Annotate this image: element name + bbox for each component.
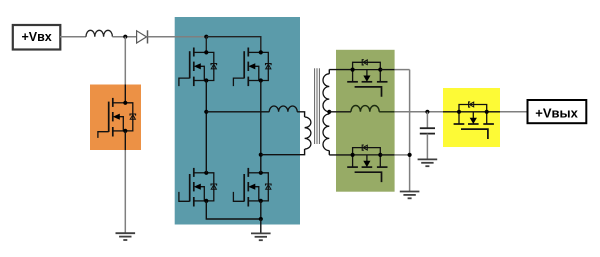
transistor VT8 (N-MOSFET with body diode) bbox=[454, 102, 494, 139]
inductor L3 (output filter) bbox=[351, 106, 379, 112]
wire: VT7 to common rail bbox=[380, 154, 394, 156]
wire: right leg mid (VT3 source to VT5 drain) bbox=[260, 81, 262, 173]
wire: L3 to output node bbox=[379, 111, 394, 113]
inductor L2 (resonant/series) bbox=[269, 106, 297, 112]
terminal +Vвых bbox=[528, 100, 587, 123]
node: boost node junction bbox=[123, 35, 127, 39]
wire: secondary top to rectifier VT6 bbox=[329, 69, 352, 71]
transistor VT1 (N-MOSFET with body diode) bbox=[98, 98, 136, 138]
transistor VT3 (N-MOSFET with body diode) bbox=[233, 48, 271, 87]
wire: L2 to transformer primary top bbox=[297, 112, 304, 117]
wire: +Vвх to L1 bbox=[60, 36, 86, 38]
wire: centre tap to output inductor bbox=[329, 111, 351, 113]
node: right-leg junction to primary return bbox=[259, 153, 263, 157]
block: output switch (yellow) bbox=[443, 88, 500, 147]
wire: left midpoint to series inductor bbox=[206, 111, 269, 113]
wire: secondary bottom to rectifier VT7 bbox=[329, 154, 352, 156]
wire: D1 to bridge top rail bbox=[148, 36, 207, 38]
ground bridge bbox=[251, 233, 271, 240]
block: synchronous rectifier (green) bbox=[336, 50, 395, 192]
wire: L1 to diode D1 bbox=[112, 36, 136, 38]
node: bridge left-leg midpoint bbox=[204, 110, 208, 114]
inductor L1 bbox=[86, 30, 112, 36]
transistor VT2 (N-MOSFET with body diode) bbox=[179, 48, 217, 87]
wire: VT1 source to ground bbox=[124, 131, 126, 150]
wire: output through switch block bbox=[443, 111, 459, 113]
node: secondary centre tap bbox=[327, 110, 331, 114]
wire: primary bottom return to right leg bbox=[261, 149, 305, 155]
ground input clamp bbox=[116, 233, 136, 240]
terminal +Vвх bbox=[13, 25, 61, 50]
svg-text:+Vвых: +Vвых bbox=[535, 105, 578, 120]
wire: node down to clamp transistor drain bbox=[124, 37, 126, 85]
ground output filter bbox=[418, 159, 438, 166]
wire: bottom rail to ground bbox=[260, 219, 262, 233]
wire: left leg mid (VT2 source to VT4 drain) bbox=[205, 81, 207, 173]
svg-text:+Vвх: +Vвх bbox=[21, 30, 51, 44]
wire: top rail to right leg bbox=[206, 37, 260, 53]
node: output capacitor junction bbox=[425, 110, 429, 114]
node: rail junction at VT7 bbox=[408, 153, 412, 157]
wire: rectifier common rail bbox=[409, 70, 411, 192]
transformer T1 core bbox=[314, 68, 316, 144]
transistor VT5 (N-MOSFET with body diode) bbox=[233, 168, 271, 207]
transistor VT4 (N-MOSFET with body diode) bbox=[179, 168, 217, 207]
wire: top rail dot down to VT2 drain bbox=[205, 37, 207, 53]
wire: bridge bottom rail bbox=[206, 201, 260, 219]
capacitor C1 bbox=[420, 112, 435, 160]
block: full-bridge inverter (teal) bbox=[175, 17, 300, 225]
transformer T1 primary winding bbox=[305, 117, 311, 149]
node: top rail junction at left leg bbox=[204, 35, 208, 39]
node: bottom rail junction bbox=[259, 217, 263, 221]
transformer T1 secondary winding (centre-tapped) bbox=[328, 69, 330, 73]
transistor VT7 (N-MOSFET with body diode) bbox=[347, 145, 387, 182]
block: input clamp stage (orange) bbox=[90, 85, 141, 151]
diode D1 bbox=[137, 31, 147, 43]
wire: VT8 to +Vвых terminal bbox=[500, 111, 528, 113]
ground rectifier rail bbox=[400, 192, 420, 199]
transistor VT6 (N-MOSFET with body diode) bbox=[347, 60, 387, 97]
wire: VT6 to common rail bbox=[380, 69, 394, 71]
